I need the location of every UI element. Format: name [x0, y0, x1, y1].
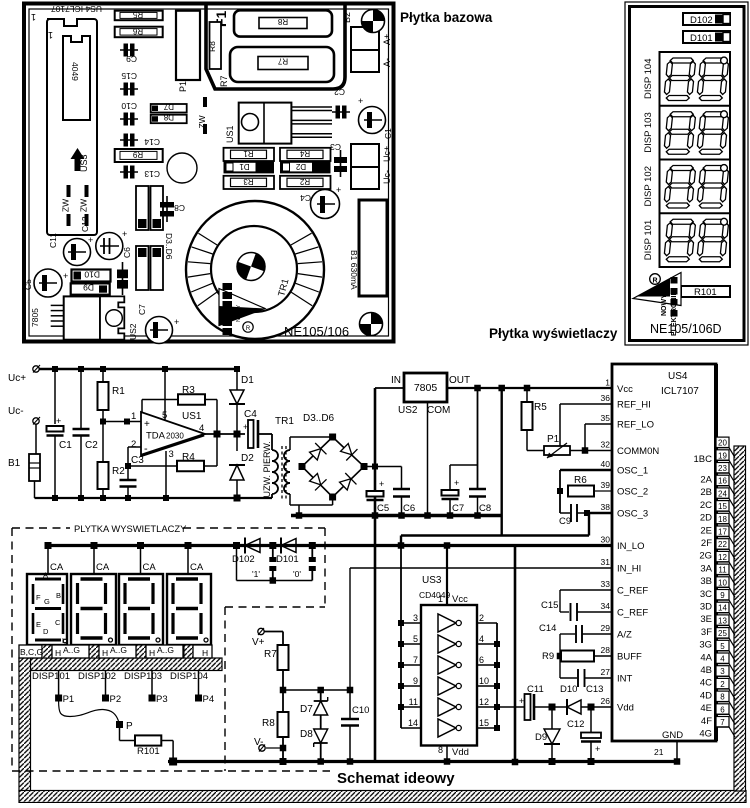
svg-text:R3: R3	[243, 177, 254, 186]
svg-text:1: 1	[131, 411, 136, 422]
svg-text:C10: C10	[121, 101, 137, 111]
svg-text:C5: C5	[377, 503, 389, 514]
svg-text:15: 15	[479, 718, 489, 728]
svg-text:2D: 2D	[700, 513, 712, 524]
svg-text:DISP 103: DISP 103	[643, 112, 654, 153]
svg-text:R8: R8	[207, 41, 217, 52]
svg-text:3C: 3C	[700, 589, 712, 600]
svg-text:P1: P1	[63, 694, 75, 705]
svg-text:D2: D2	[241, 453, 254, 464]
svg-text:+: +	[595, 744, 600, 754]
svg-text:6: 6	[479, 655, 484, 665]
svg-text:B1 630mA: B1 630mA	[349, 250, 359, 290]
svg-text:C13: C13	[586, 684, 603, 695]
svg-text:R7: R7	[264, 649, 277, 660]
svg-text:B: B	[56, 591, 61, 600]
svg-text:'1': '1'	[252, 569, 260, 579]
svg-text:C3: C3	[131, 455, 144, 466]
svg-text:R5: R5	[534, 402, 547, 413]
svg-text:A..G: A..G	[110, 645, 127, 655]
svg-text:P1: P1	[178, 81, 188, 92]
svg-text:D101: D101	[276, 554, 299, 565]
svg-text:+: +	[122, 229, 127, 239]
svg-text:3: 3	[169, 449, 174, 460]
svg-text:REF_LO: REF_LO	[617, 420, 654, 431]
svg-text:R101: R101	[694, 287, 717, 298]
svg-text:24: 24	[718, 489, 727, 498]
svg-text:US3: US3	[79, 154, 89, 172]
svg-text:C8: C8	[174, 203, 185, 213]
svg-text:D10: D10	[560, 684, 577, 695]
svg-text:REF_HI: REF_HI	[617, 400, 651, 411]
svg-text:+: +	[358, 96, 363, 106]
svg-text:16: 16	[718, 477, 727, 486]
svg-text:14: 14	[408, 718, 418, 728]
svg-text:DISP 101: DISP 101	[643, 220, 654, 261]
svg-text:D9: D9	[535, 732, 547, 743]
svg-text:27: 27	[601, 667, 611, 677]
svg-text:4: 4	[199, 423, 204, 434]
svg-text:5: 5	[720, 642, 725, 651]
svg-text:US1: US1	[182, 411, 202, 422]
svg-text:+: +	[519, 696, 524, 706]
svg-text:B2: B2	[342, 12, 352, 23]
svg-text:+: +	[336, 185, 341, 195]
svg-text:D2: D2	[295, 162, 306, 171]
svg-text:D9: D9	[83, 283, 94, 293]
svg-text:D3..D6: D3..D6	[303, 413, 335, 424]
svg-text:R5: R5	[132, 10, 143, 19]
svg-text:6: 6	[720, 705, 725, 714]
svg-text:C11: C11	[527, 684, 544, 695]
svg-text:4C: 4C	[700, 678, 712, 689]
svg-text:2E: 2E	[700, 525, 712, 536]
svg-text:2B: 2B	[700, 487, 712, 498]
svg-text:US4 ICL7107: US4 ICL7107	[51, 4, 102, 14]
svg-text:TR1: TR1	[275, 416, 294, 427]
svg-text:39: 39	[601, 480, 611, 490]
svg-text:E: E	[36, 620, 41, 629]
svg-text:C2: C2	[85, 440, 98, 451]
svg-text:D102: D102	[232, 554, 255, 565]
svg-text:D10: D10	[84, 270, 100, 280]
svg-text:C15: C15	[121, 71, 137, 81]
svg-text:OSC_3: OSC_3	[617, 509, 648, 520]
svg-text:C13: C13	[144, 169, 160, 179]
svg-text:31: 31	[601, 557, 611, 567]
svg-text:US3: US3	[422, 575, 442, 586]
svg-text:C7: C7	[137, 304, 147, 315]
svg-text:R8: R8	[277, 17, 288, 26]
svg-text:9: 9	[720, 591, 725, 600]
svg-text:US2: US2	[398, 405, 418, 416]
svg-text:P3: P3	[156, 694, 168, 705]
svg-text:R: R	[652, 278, 657, 285]
svg-text:4B: 4B	[700, 665, 712, 676]
svg-text:ICL7107: ICL7107	[661, 386, 699, 397]
svg-text:C_REF: C_REF	[617, 608, 648, 619]
svg-text:C14: C14	[144, 137, 160, 147]
svg-text:UZW. PIERW.: UZW. PIERW.	[262, 441, 272, 497]
svg-text:14: 14	[718, 604, 727, 613]
svg-text:C1: C1	[59, 440, 72, 451]
svg-text:C4: C4	[300, 193, 311, 203]
svg-text:11: 11	[409, 697, 418, 707]
svg-text:CD4049: CD4049	[419, 590, 450, 600]
svg-text:1: 1	[438, 594, 443, 604]
svg-text:26: 26	[601, 696, 611, 706]
svg-text:D7: D7	[163, 102, 174, 111]
svg-text:+: +	[174, 317, 179, 327]
svg-text:Płytka wyświetlaczy: Płytka wyświetlaczy	[489, 326, 618, 341]
svg-text:12: 12	[479, 697, 489, 707]
svg-text:1: 1	[605, 378, 610, 388]
svg-text:C_REF: C_REF	[617, 586, 648, 597]
svg-text:DISP104: DISP104	[170, 671, 208, 682]
svg-text:C: C	[55, 618, 61, 627]
svg-text:A..G: A..G	[157, 645, 174, 655]
svg-text:IN_LO: IN_LO	[617, 541, 644, 552]
svg-text:R4: R4	[299, 149, 310, 158]
svg-text:9: 9	[413, 676, 418, 686]
svg-text:DISP 102: DISP 102	[643, 166, 654, 207]
svg-text:ZW: ZW	[79, 199, 89, 212]
svg-text:CA: CA	[96, 562, 110, 573]
svg-text:7: 7	[720, 718, 725, 727]
svg-text:1: 1	[31, 12, 36, 22]
svg-text:4A: 4A	[700, 652, 712, 663]
svg-text:C5: C5	[23, 279, 33, 290]
svg-text:R4: R4	[182, 452, 195, 463]
svg-text:22: 22	[718, 540, 727, 549]
svg-text:D1: D1	[241, 375, 254, 386]
svg-text:12: 12	[718, 553, 727, 562]
svg-text:4G: 4G	[699, 729, 712, 740]
svg-text:R7: R7	[277, 57, 288, 66]
svg-text:'0': '0'	[293, 569, 301, 579]
svg-text:Vdd: Vdd	[617, 703, 634, 714]
svg-text:COM: COM	[427, 405, 450, 416]
svg-text:G: G	[44, 597, 50, 606]
svg-text:C12: C12	[567, 719, 584, 730]
svg-text:R1: R1	[243, 149, 254, 158]
svg-text:3F: 3F	[701, 627, 712, 638]
svg-text:D: D	[43, 627, 49, 636]
svg-text:A/Z: A/Z	[617, 630, 632, 641]
svg-text:C9: C9	[126, 54, 137, 64]
svg-text:Vcc: Vcc	[617, 384, 633, 395]
svg-text:7805: 7805	[30, 308, 40, 327]
svg-text:10: 10	[479, 676, 489, 686]
svg-text:Uc-: Uc-	[8, 406, 24, 417]
svg-text:R6: R6	[132, 27, 143, 36]
svg-text:+: +	[88, 235, 93, 245]
svg-text:3: 3	[720, 667, 725, 676]
svg-text:D7: D7	[300, 704, 313, 715]
svg-text:V-: V-	[254, 737, 263, 748]
svg-text:C2: C2	[334, 87, 345, 97]
svg-text:10: 10	[718, 578, 727, 587]
svg-text:3B: 3B	[700, 576, 712, 587]
svg-text:8: 8	[438, 745, 443, 755]
svg-text:C12: C12	[80, 216, 90, 232]
svg-text:2030: 2030	[166, 432, 184, 441]
svg-text:Uc+: Uc+	[382, 146, 392, 162]
svg-text:19: 19	[718, 451, 727, 460]
svg-text:US4: US4	[668, 371, 688, 382]
svg-text:4: 4	[720, 655, 725, 664]
svg-text:11: 11	[718, 566, 727, 575]
svg-text:B1: B1	[8, 458, 21, 469]
svg-text:US1: US1	[225, 125, 235, 143]
svg-text:+: +	[379, 479, 384, 489]
svg-text:21: 21	[654, 747, 664, 757]
svg-text:2G: 2G	[699, 551, 712, 562]
svg-text:OUT: OUT	[449, 375, 470, 386]
svg-text:R3: R3	[182, 385, 195, 396]
svg-text:8: 8	[720, 693, 725, 702]
svg-text:2: 2	[720, 680, 725, 689]
svg-text:C10: C10	[352, 705, 369, 716]
svg-text:A: A	[43, 571, 48, 580]
svg-text:4: 4	[479, 634, 484, 644]
svg-text:F: F	[36, 593, 41, 602]
svg-text:3G: 3G	[699, 640, 712, 651]
svg-text:R8: R8	[262, 718, 275, 729]
svg-text:C4: C4	[244, 409, 257, 420]
svg-text:-: -	[144, 443, 148, 455]
svg-text:D1: D1	[239, 162, 250, 171]
svg-text:4E: 4E	[700, 703, 712, 714]
svg-text:Schemat ideowy: Schemat ideowy	[337, 770, 455, 787]
svg-text:H: H	[102, 648, 108, 658]
svg-text:CA: CA	[190, 562, 204, 573]
svg-text:23: 23	[718, 464, 727, 473]
svg-text:Płytka bazowa: Płytka bazowa	[400, 10, 493, 25]
svg-text:C6: C6	[403, 503, 415, 514]
svg-text:+: +	[63, 271, 68, 281]
svg-text:P1: P1	[547, 434, 560, 445]
svg-text:2: 2	[479, 613, 484, 623]
svg-text:2C: 2C	[700, 500, 712, 511]
svg-text:C11: C11	[48, 233, 58, 248]
svg-text:2A: 2A	[700, 475, 712, 486]
svg-text:C9: C9	[559, 516, 571, 527]
svg-text:NOWY: NOWY	[661, 294, 668, 316]
svg-text:NOWY: NOWY	[236, 305, 242, 322]
svg-text:38: 38	[601, 502, 611, 512]
svg-text:4049: 4049	[70, 62, 80, 81]
svg-text:H: H	[202, 648, 208, 658]
svg-text:2: 2	[131, 439, 136, 450]
svg-text:H: H	[55, 648, 61, 658]
svg-text:R9: R9	[542, 651, 554, 662]
svg-text:1: 1	[48, 30, 53, 40]
svg-text:25: 25	[718, 629, 727, 638]
svg-text:20: 20	[718, 439, 727, 448]
svg-text:R1: R1	[112, 386, 125, 397]
svg-text:3D: 3D	[700, 602, 712, 613]
svg-text:R6: R6	[574, 475, 587, 486]
svg-text:C15: C15	[541, 600, 558, 611]
svg-text:7805: 7805	[414, 382, 438, 394]
svg-text:D8: D8	[300, 729, 313, 740]
svg-text:28: 28	[601, 645, 611, 655]
svg-text:Vdd: Vdd	[452, 747, 469, 758]
svg-text:A-: A-	[382, 58, 392, 67]
svg-text:IN: IN	[391, 375, 401, 386]
svg-text:36: 36	[601, 393, 611, 403]
svg-text:DISP103: DISP103	[124, 671, 162, 682]
svg-text:V+: V+	[252, 637, 265, 648]
svg-text:1BC: 1BC	[694, 454, 713, 465]
svg-text:C3: C3	[330, 142, 341, 152]
svg-text:C14: C14	[539, 623, 556, 634]
svg-text:CA: CA	[50, 562, 64, 573]
svg-text:+: +	[144, 419, 150, 430]
svg-text:OSC_2: OSC_2	[617, 487, 648, 498]
svg-text:D102: D102	[690, 15, 713, 26]
svg-text:2F: 2F	[701, 538, 712, 549]
svg-text:OSC_1: OSC_1	[617, 466, 648, 477]
svg-text:A..G: A..G	[63, 645, 80, 655]
svg-text:H: H	[149, 648, 155, 658]
svg-text:13: 13	[718, 616, 727, 625]
svg-text:15: 15	[718, 502, 727, 511]
svg-text:33: 33	[601, 579, 611, 589]
svg-text:GND: GND	[662, 730, 683, 741]
svg-text:P2: P2	[110, 694, 122, 705]
svg-text:R7: R7	[219, 75, 229, 87]
svg-text:17: 17	[718, 528, 727, 537]
svg-text:Uc-: Uc-	[382, 170, 392, 184]
svg-text:ZW: ZW	[61, 199, 71, 212]
svg-text:3A: 3A	[700, 563, 712, 574]
svg-text:4F: 4F	[701, 716, 712, 727]
svg-text:COMM0N: COMM0N	[617, 446, 659, 457]
svg-text:NE105/106D: NE105/106D	[650, 322, 722, 336]
svg-text:US2: US2	[128, 323, 138, 340]
svg-text:P: P	[126, 721, 133, 732]
svg-text:4D: 4D	[700, 690, 712, 701]
svg-text:30: 30	[601, 535, 611, 545]
svg-text:B,C,G: B,C,G	[20, 647, 43, 657]
svg-text:DISP101: DISP101	[32, 671, 70, 682]
svg-text:C8: C8	[479, 503, 491, 514]
svg-text:18: 18	[718, 515, 727, 524]
svg-text:P4: P4	[203, 694, 215, 705]
svg-text:NE105/106: NE105/106	[284, 324, 349, 339]
svg-text:D8: D8	[163, 113, 174, 122]
svg-text:A+: A+	[382, 34, 392, 45]
svg-text:R2: R2	[299, 177, 310, 186]
svg-text:+: +	[56, 416, 61, 426]
svg-text:3E: 3E	[700, 614, 712, 625]
svg-text:C1: C1	[383, 128, 393, 139]
svg-text:IN_HI: IN_HI	[617, 564, 641, 575]
svg-text:BUFF: BUFF	[617, 652, 642, 663]
svg-text:7: 7	[413, 655, 418, 665]
svg-text:35: 35	[601, 413, 611, 423]
svg-text:+: +	[454, 478, 459, 488]
svg-text:3: 3	[413, 613, 418, 623]
svg-text:32: 32	[601, 440, 611, 450]
svg-text:C6: C6	[122, 247, 132, 258]
svg-text:D101: D101	[690, 33, 713, 44]
svg-text:CA: CA	[143, 562, 157, 573]
svg-text:R2: R2	[112, 466, 125, 477]
svg-text:R: R	[246, 326, 251, 332]
svg-text:D3..D6: D3..D6	[164, 233, 174, 260]
svg-text:R9: R9	[132, 150, 143, 159]
svg-text:DISP 104: DISP 104	[643, 59, 654, 100]
svg-text:PLYTKA WYSWIETLACZY: PLYTKA WYSWIETLACZY	[74, 523, 187, 534]
svg-text:Vcc: Vcc	[452, 594, 468, 605]
svg-text:34: 34	[601, 601, 611, 611]
svg-text:INT: INT	[617, 674, 633, 685]
svg-text:Uc+: Uc+	[8, 373, 26, 384]
svg-text:5: 5	[413, 634, 418, 644]
svg-text:C7: C7	[452, 503, 464, 514]
svg-text:TDA: TDA	[146, 431, 166, 442]
svg-text:40: 40	[601, 459, 611, 469]
svg-text:R101: R101	[137, 746, 160, 757]
svg-text:29: 29	[601, 623, 611, 633]
svg-text:DISP102: DISP102	[78, 671, 116, 682]
